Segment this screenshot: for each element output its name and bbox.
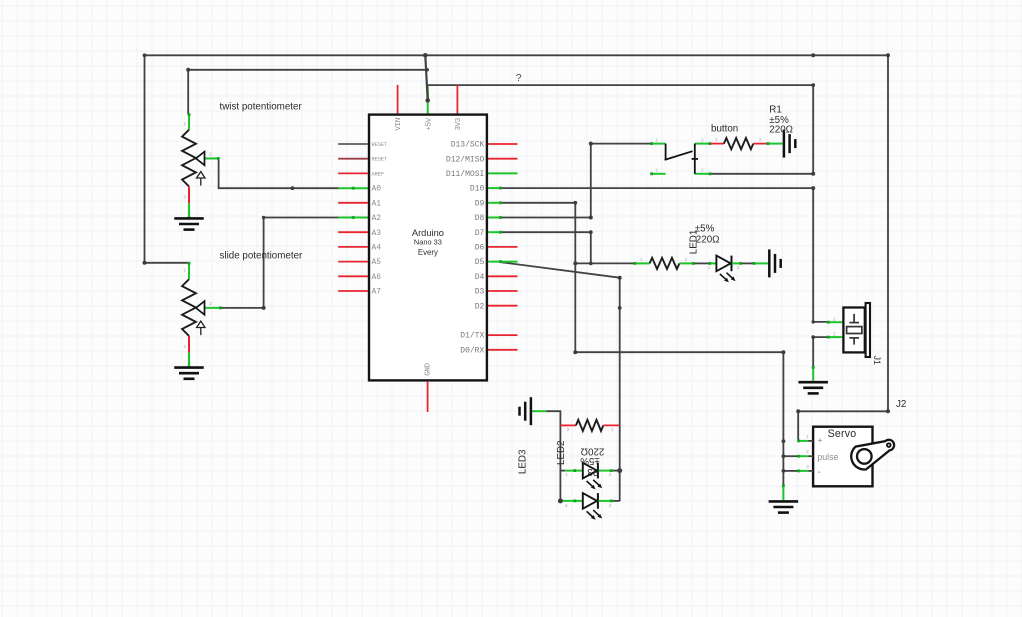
svg-text:220Ω: 220Ω bbox=[696, 235, 720, 246]
svg-text:D11/MOSI: D11/MOSI bbox=[446, 170, 484, 179]
svg-text:2: 2 bbox=[209, 151, 212, 157]
svg-text:1: 1 bbox=[611, 427, 614, 433]
svg-text:D6: D6 bbox=[475, 244, 485, 253]
svg-text:1: 1 bbox=[565, 472, 568, 478]
svg-text:1: 1 bbox=[715, 137, 718, 143]
svg-text:GND: GND bbox=[425, 362, 433, 375]
svg-text:slide potentiometer: slide potentiometer bbox=[220, 251, 304, 262]
svg-text:button: button bbox=[711, 123, 738, 134]
svg-text:A3: A3 bbox=[372, 229, 382, 238]
svg-text:220Ω: 220Ω bbox=[581, 446, 605, 457]
svg-text:3V3: 3V3 bbox=[455, 117, 463, 130]
svg-text:D8: D8 bbox=[475, 214, 485, 223]
svg-text:2: 2 bbox=[209, 301, 212, 307]
svg-text:1: 1 bbox=[183, 121, 186, 127]
svg-text:D10: D10 bbox=[470, 185, 485, 194]
svg-text:1: 1 bbox=[565, 503, 568, 509]
svg-text:2: 2 bbox=[833, 331, 836, 337]
svg-text:1: 1 bbox=[183, 268, 186, 274]
svg-text:D0/RX: D0/RX bbox=[460, 346, 484, 355]
svg-text:R1: R1 bbox=[769, 104, 782, 115]
svg-text:D2: D2 bbox=[475, 302, 485, 311]
svg-text:D12/MISO: D12/MISO bbox=[446, 155, 485, 164]
svg-text:+5V: +5V bbox=[425, 117, 433, 130]
svg-text:A7: A7 bbox=[372, 288, 382, 297]
svg-text:A0: A0 bbox=[372, 185, 382, 194]
svg-text:1: 1 bbox=[640, 257, 643, 263]
svg-text:1: 1 bbox=[708, 265, 711, 271]
svg-text:D9: D9 bbox=[475, 199, 485, 208]
svg-text:A4: A4 bbox=[372, 244, 382, 253]
svg-text:1: 1 bbox=[806, 434, 809, 440]
svg-text:+: + bbox=[817, 435, 822, 445]
svg-text:3: 3 bbox=[183, 195, 186, 201]
svg-text:D5: D5 bbox=[475, 258, 485, 267]
svg-text:RESET: RESET bbox=[372, 157, 388, 163]
svg-text:D1/TX: D1/TX bbox=[460, 332, 484, 341]
svg-text:2: 2 bbox=[701, 168, 704, 174]
svg-text:RESET: RESET bbox=[372, 142, 388, 148]
svg-text:2: 2 bbox=[759, 137, 762, 143]
svg-text:3: 3 bbox=[183, 344, 186, 350]
svg-text:D7: D7 bbox=[475, 229, 485, 238]
svg-text:220Ω: 220Ω bbox=[769, 125, 793, 136]
svg-text:±5%: ±5% bbox=[580, 455, 600, 466]
svg-text:AREF: AREF bbox=[372, 171, 384, 177]
svg-text:A1: A1 bbox=[372, 199, 382, 208]
svg-text:D4: D4 bbox=[475, 273, 485, 282]
svg-text:J1: J1 bbox=[872, 356, 882, 365]
svg-text:?: ? bbox=[516, 72, 522, 84]
svg-text:2: 2 bbox=[567, 427, 570, 433]
svg-text:1: 1 bbox=[655, 168, 658, 174]
svg-text:-: - bbox=[817, 466, 821, 478]
svg-text:2: 2 bbox=[701, 137, 704, 143]
svg-text:LED3: LED3 bbox=[517, 449, 528, 474]
svg-text:Nano 33: Nano 33 bbox=[414, 238, 442, 247]
svg-text:A6: A6 bbox=[372, 273, 382, 282]
svg-text:2: 2 bbox=[685, 257, 688, 263]
svg-text:twist potentiometer: twist potentiometer bbox=[220, 102, 303, 113]
svg-text:±5%: ±5% bbox=[695, 223, 715, 234]
svg-text:3: 3 bbox=[806, 464, 809, 470]
svg-text:2: 2 bbox=[609, 472, 612, 478]
svg-text:1: 1 bbox=[833, 316, 836, 322]
svg-text:2: 2 bbox=[609, 503, 612, 509]
svg-text:Arduino: Arduino bbox=[412, 228, 444, 238]
svg-text:LED2: LED2 bbox=[556, 440, 567, 465]
svg-text:J2: J2 bbox=[896, 399, 906, 410]
svg-text:2: 2 bbox=[737, 265, 740, 271]
svg-text:pulse: pulse bbox=[817, 452, 838, 462]
svg-text:R3: R3 bbox=[587, 466, 600, 477]
svg-text:A2: A2 bbox=[372, 214, 382, 223]
svg-text:A5: A5 bbox=[372, 258, 382, 267]
svg-text:D13/SCK: D13/SCK bbox=[451, 141, 485, 150]
svg-text:D3: D3 bbox=[475, 288, 485, 297]
svg-text:Every: Every bbox=[418, 248, 438, 257]
svg-text:2: 2 bbox=[806, 449, 809, 455]
svg-text:1: 1 bbox=[655, 137, 658, 143]
svg-text:Servo: Servo bbox=[828, 428, 857, 440]
svg-text:VIN: VIN bbox=[395, 118, 403, 130]
